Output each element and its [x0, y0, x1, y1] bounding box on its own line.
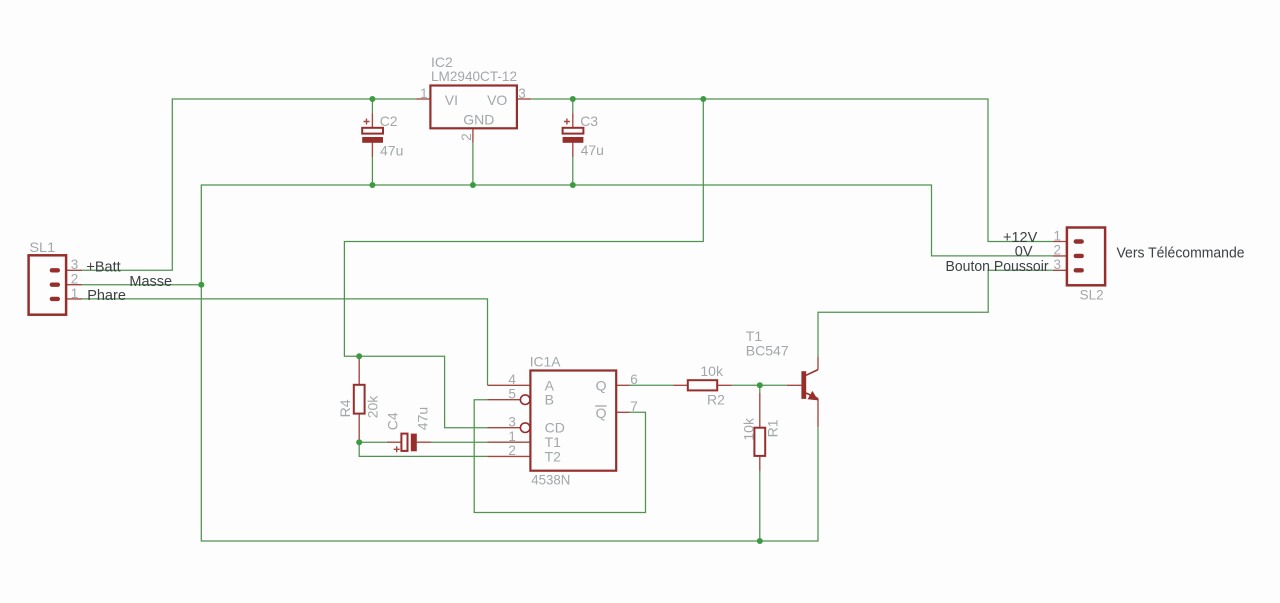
wire Phare from SL1 pin1 to IC1A pin A: [82, 299, 488, 385]
junction top rail C2: [369, 96, 375, 102]
pin stub C4 left: [387, 441, 402, 443]
pin stub IC1A pin1 T1: [488, 441, 531, 443]
svg-text:B: B: [545, 392, 554, 408]
svg-text:3: 3: [508, 415, 516, 430]
pin stub R4 top: [358, 356, 360, 385]
svg-text:20k: 20k: [364, 395, 380, 419]
wire R2 to T1 base: [732, 384, 787, 386]
svg-text:47u: 47u: [380, 142, 403, 158]
svg-text:VI: VI: [445, 92, 458, 108]
pin stub C3 top: [572, 113, 574, 128]
svg-text:R1: R1: [764, 419, 780, 437]
pin stub C2 top: [371, 113, 373, 128]
wire Masse from SL1 pin2 to junction: [82, 284, 201, 286]
connector SL1 pin contact 3: [50, 268, 60, 272]
connector SL1 body: [29, 255, 67, 314]
pin stub IC1A pin3 CD: [488, 427, 521, 429]
svg-text:T2: T2: [545, 448, 562, 464]
connector SL2 pin contact 3: [1074, 268, 1084, 272]
junction R4 bottom C4 T2: [356, 439, 362, 445]
pin stub C2 bottom: [371, 143, 373, 158]
svg-text:4538N: 4538N: [531, 472, 570, 488]
svg-text:1: 1: [71, 286, 79, 301]
svg-text:3: 3: [71, 257, 79, 272]
capacitor C4 plus sign: [394, 446, 400, 452]
svg-text:6: 6: [630, 372, 638, 387]
pin stub SL1 pin3: [60, 269, 82, 271]
pin stub T1 collector: [817, 357, 819, 370]
pin stub SL2 pin3: [1053, 269, 1074, 271]
junction R1 bottom rail: [757, 538, 763, 544]
pin stub IC1A pin7 Qbar: [616, 411, 629, 413]
wire C2 top lead: [371, 99, 373, 113]
overbar of Qbar: [595, 405, 606, 407]
pin stub R2 right: [717, 384, 732, 386]
wire IC2 GND lead to rail: [472, 143, 474, 185]
pin stub T1 emitter: [817, 399, 819, 428]
junction mid rail C3: [570, 182, 576, 188]
svg-text:Bouton Poussoir: Bouton Poussoir: [946, 259, 1049, 275]
pin stub IC1A pin6 Q: [616, 384, 629, 386]
connector SL2 body: [1067, 228, 1105, 286]
pin stub R1 bottom: [759, 456, 761, 471]
svg-text:T1: T1: [746, 328, 763, 344]
junction Masse: [198, 282, 204, 288]
svg-text:SL2: SL2: [1080, 287, 1104, 303]
pin stub IC2 pin1: [416, 98, 430, 100]
svg-text:3: 3: [518, 86, 526, 101]
svg-text:Q: Q: [596, 405, 607, 421]
pin stub C3 bottom: [572, 143, 574, 158]
svg-text:2: 2: [1053, 243, 1061, 258]
wire +12V branch to R4 and CD: [344, 99, 703, 428]
pin stub SL1 pin1: [60, 298, 82, 300]
svg-text:LM2940CT-12: LM2940CT-12: [431, 68, 517, 84]
transistor T1 collector line: [806, 370, 818, 376]
wire R4 bottom to C4: [359, 441, 387, 443]
resistor R2: [688, 380, 717, 390]
capacitor C4 positive plate: [401, 434, 407, 451]
resistor R4: [354, 385, 365, 414]
pin stub IC2 pin3: [517, 98, 531, 100]
pin stub IC1A pin5 B: [488, 399, 521, 401]
svg-text:SL1: SL1: [29, 239, 55, 255]
svg-text:Phare: Phare: [87, 288, 126, 304]
transistor T1 base bar: [801, 371, 806, 399]
transistor T1 emitter arrow: [808, 391, 819, 401]
transistor T1 emitter line: [806, 393, 818, 399]
wire R1 bottom to bottom rail: [759, 471, 761, 541]
wire +Batt net: SL1 pin3 up to top rail into IC2 VI: [82, 99, 416, 270]
svg-text:Masse: Masse: [129, 274, 172, 290]
svg-text:C4: C4: [385, 412, 401, 430]
svg-text:1: 1: [1053, 228, 1061, 243]
svg-text:1: 1: [508, 429, 516, 444]
junction top rail C3: [570, 96, 576, 102]
capacitor C3 plus sign: [564, 119, 570, 125]
inversion bubble pin 3 CD: [520, 423, 530, 433]
wire C3 bottom lead: [572, 157, 574, 185]
svg-text:VO: VO: [487, 92, 507, 108]
svg-text:2: 2: [459, 133, 474, 141]
junction R2 R1 base: [757, 382, 763, 388]
pin stub IC1A pin4 A: [488, 384, 531, 386]
svg-text:47u: 47u: [415, 407, 431, 430]
svg-text:C2: C2: [380, 113, 398, 129]
wire collector to Bouton Poussoir SL2 pin3: [818, 270, 1053, 357]
capacitor C2 plus sign: [364, 119, 370, 125]
svg-text:4: 4: [508, 372, 516, 387]
wire C4 to T1 pin: [431, 441, 488, 443]
pin stub T1 base: [787, 384, 802, 386]
connector SL2 pin contact 1: [1074, 239, 1084, 243]
junction top rail +12V branch: [700, 96, 706, 102]
svg-text:10k: 10k: [700, 363, 724, 379]
capacitor C3 negative plate: [563, 137, 584, 143]
svg-text:7: 7: [630, 399, 638, 414]
svg-text:Q: Q: [596, 377, 607, 393]
svg-text:2: 2: [508, 443, 516, 458]
pin stub C4 right: [417, 441, 431, 443]
pin stub IC1A pin2 T2: [488, 455, 531, 457]
svg-text:3: 3: [1053, 257, 1061, 272]
svg-text:R2: R2: [707, 391, 725, 407]
wire C2 bottom lead: [371, 157, 373, 185]
pin stub SL2 pin1: [1053, 241, 1074, 243]
svg-text:R4: R4: [337, 399, 353, 417]
wire junction to R1 top: [759, 385, 761, 393]
svg-text:BC547: BC547: [746, 343, 789, 359]
capacitor C2 negative plate: [362, 137, 383, 143]
capacitor C3 positive plate: [563, 128, 584, 134]
pin stub SL2 pin2: [1053, 255, 1074, 257]
junction R4 top: [356, 353, 362, 359]
pin stub SL1 pin2: [60, 284, 82, 286]
voltage regulator IC2 body: [430, 86, 517, 129]
svg-text:2: 2: [71, 272, 79, 287]
svg-text:IC1A: IC1A: [530, 353, 561, 369]
pin stub R2 left: [673, 384, 688, 386]
capacitor C4 negative plate: [411, 434, 417, 452]
svg-text:C3: C3: [580, 113, 598, 129]
svg-text:10k: 10k: [740, 417, 756, 441]
resistor R1: [754, 428, 765, 456]
junction mid rail C2: [369, 182, 375, 188]
connector SL1 pin contact 1: [50, 297, 60, 301]
svg-text:1: 1: [420, 86, 428, 101]
inversion bubble pin 5 B: [520, 395, 530, 405]
pin stub R4 bottom: [358, 414, 360, 443]
wire Q to R2: [630, 384, 674, 386]
svg-text:Vers Télécommande: Vers Télécommande: [1117, 245, 1245, 261]
svg-text:5: 5: [508, 387, 516, 402]
svg-text:47u: 47u: [581, 142, 604, 158]
pin stub IC2 pin2 GND: [472, 128, 474, 142]
capacitor C2 positive plate: [362, 128, 383, 134]
svg-text:GND: GND: [463, 112, 494, 128]
wire T2 branch: [359, 442, 487, 456]
wire GND net: 0V, middle rail, left drop, bottom rail, emitter: [201, 185, 1053, 541]
connector SL2 pin contact 2: [1074, 254, 1084, 258]
wire C3 top lead: [572, 99, 574, 113]
multivibrator IC1A body: [530, 371, 616, 471]
junction mid rail IC2 GND: [470, 182, 476, 188]
wire +12V net: IC2 VO top rail right then down to SL2 pin1: [531, 99, 1053, 242]
wire B to Qbar feedback loop: [474, 400, 645, 513]
svg-text:0V: 0V: [1015, 244, 1033, 260]
pin stub R1 top: [759, 393, 761, 428]
svg-text:+Batt: +Batt: [86, 259, 120, 275]
connector SL1 pin contact 2: [50, 283, 60, 287]
